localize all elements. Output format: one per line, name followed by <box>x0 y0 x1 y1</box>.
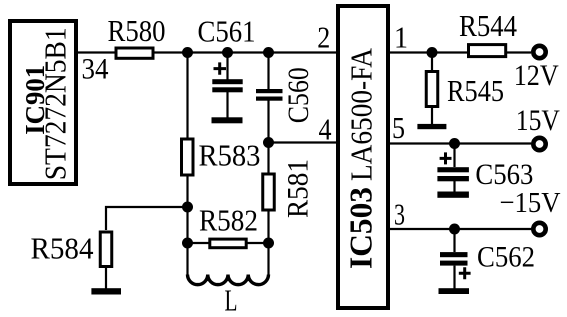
terminal -15V <box>533 223 545 235</box>
node junction C561 <box>222 47 233 58</box>
node junction R582 right <box>263 238 274 249</box>
wire pin1 <box>388 51 531 53</box>
svg-text:34: 34 <box>82 53 109 86</box>
node junction R582 left <box>182 238 193 249</box>
resistor R581 <box>263 174 275 210</box>
IC503 box <box>338 6 388 308</box>
node junction C560 <box>263 47 274 58</box>
svg-text:15V: 15V <box>516 104 560 137</box>
wire pin34 to IC503 pin2 <box>78 51 338 53</box>
capacitor C561 <box>198 14 256 119</box>
resistor R584 <box>100 232 112 267</box>
node junction R584 branch <box>182 202 193 213</box>
capacitor C563 <box>437 144 533 195</box>
wire left column vertical <box>186 53 188 275</box>
ground under C561 <box>212 117 243 123</box>
svg-text:R544: R544 <box>459 8 517 43</box>
svg-text:R580: R580 <box>108 13 166 48</box>
inductor L <box>188 275 269 285</box>
ground under R545 <box>417 124 446 129</box>
resistor R583 <box>182 139 194 175</box>
svg-text:R545: R545 <box>447 73 504 108</box>
ground under R584 <box>91 288 121 294</box>
svg-text:4: 4 <box>319 112 332 147</box>
ground under C563 <box>437 192 469 198</box>
node junction pin4 <box>263 137 274 148</box>
terminal 15V <box>533 138 545 150</box>
wire pin4 <box>269 141 339 143</box>
svg-text:2: 2 <box>317 20 330 55</box>
svg-text:R584: R584 <box>31 231 94 266</box>
svg-text:3: 3 <box>394 197 405 232</box>
wire pin3 <box>388 228 532 230</box>
node junction pin5/C563 <box>449 138 460 149</box>
svg-text:5: 5 <box>392 110 405 145</box>
resistor R580 <box>116 48 153 58</box>
svg-text:C560: C560 <box>282 67 315 123</box>
node junction main/left column <box>182 47 193 58</box>
node junction pin3/C562 <box>449 224 460 235</box>
node junction pin1/R545 <box>427 47 438 58</box>
svg-text:LA6500-FA: LA6500-FA <box>344 47 379 181</box>
resistor R582 <box>188 203 269 248</box>
svg-text:C562: C562 <box>477 241 535 274</box>
terminal 12V <box>533 46 545 58</box>
svg-text:IC503: IC503 <box>343 187 379 269</box>
svg-text:R581: R581 <box>282 159 315 218</box>
svg-text:R582: R582 <box>199 203 258 238</box>
capacitor C562 <box>440 229 535 291</box>
svg-text:C561: C561 <box>198 14 256 49</box>
ground under C562 <box>439 288 470 294</box>
svg-text:12V: 12V <box>514 59 559 92</box>
wire pin5 <box>388 142 531 144</box>
resistor R545 <box>426 53 504 125</box>
svg-text:R583: R583 <box>199 138 261 173</box>
svg-text:L: L <box>225 283 238 317</box>
capacitor C560 <box>256 53 315 275</box>
resistor R544 <box>469 45 506 57</box>
IC901 box <box>10 21 76 184</box>
svg-text:−15V: −15V <box>500 187 561 219</box>
svg-text:1: 1 <box>394 20 408 55</box>
wire R584 branch <box>106 207 188 291</box>
svg-text:ST7272N5B1: ST7272N5B1 <box>38 27 73 180</box>
